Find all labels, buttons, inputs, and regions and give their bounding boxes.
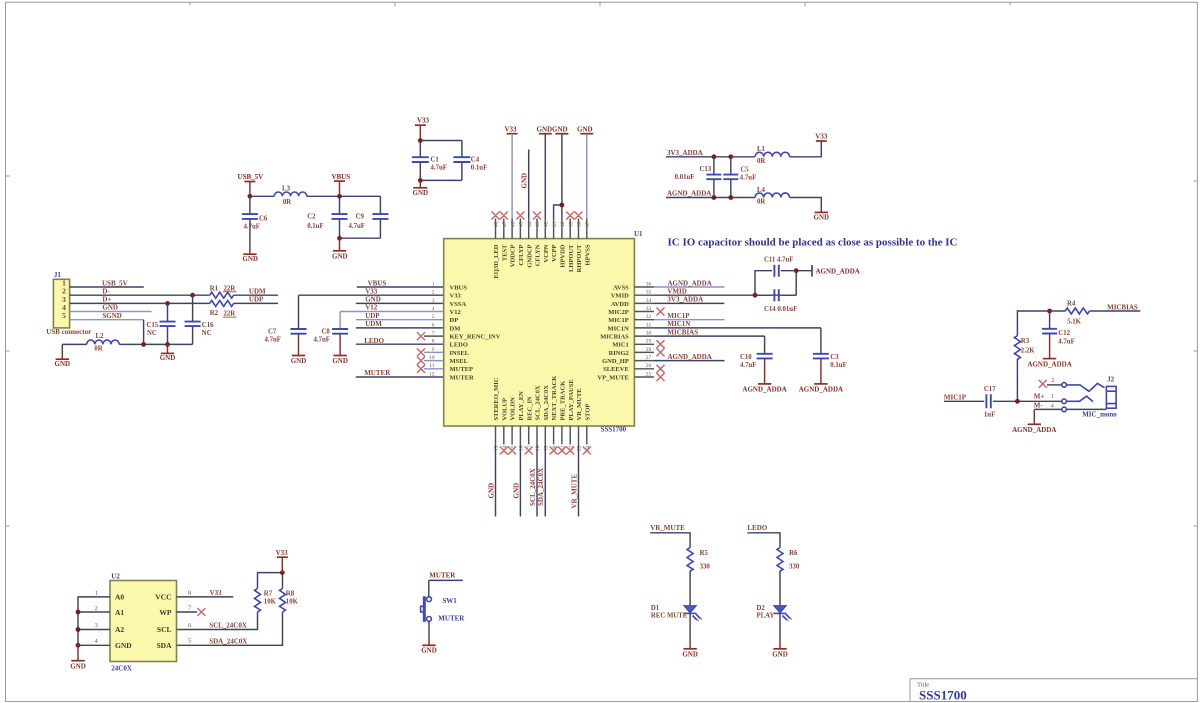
wire J1 pin5 / net SGND [70,312,144,345]
svg-text:3: 3 [95,622,98,629]
svg-text:4.7uF: 4.7uF [431,164,447,171]
svg-text:5: 5 [432,314,435,320]
svg-text:NC: NC [147,330,157,337]
svg-text:0.01uF: 0.01uF [675,174,695,181]
junction [1015,399,1020,404]
capacitor C13 [675,157,722,198]
wire net GND U1 pin16 [512,444,520,516]
svg-text:D-: D- [102,287,110,295]
junction [248,194,253,199]
svg-text:C12: C12 [1058,330,1070,337]
wire top rail C1-C4 [420,140,462,142]
svg-text:3: 3 [432,298,435,304]
svg-text:R5: R5 [700,550,709,557]
svg-text:NC: NC [202,330,212,337]
svg-text:42: 42 [544,221,550,227]
svg-text:0.1uF: 0.1uF [830,362,846,369]
svg-text:330: 330 [789,564,800,571]
svg-text:C4: C4 [471,157,480,164]
resistor R7 [255,588,277,612]
svg-text:GND: GND [55,360,71,368]
svg-text:C6: C6 [259,216,268,223]
wire R1 / net UDM [234,288,278,296]
connector J1 [53,271,69,328]
svg-text:39: 39 [568,221,574,227]
svg-text:10K: 10K [264,598,277,605]
ground (above U1 pins 41 VCPP / 40 HPVDD) [552,125,568,218]
wire net SCL_24C0X U1 pin18 [529,444,537,516]
svg-text:2.2K: 2.2K [1021,347,1035,354]
svg-text:EQ3D_LED: EQ3D_LED [493,244,500,278]
junction [165,301,170,306]
svg-text:C15: C15 [147,322,159,329]
svg-text:MIC1N: MIC1N [667,320,690,328]
capacitor C3 [813,328,847,369]
ground (above U1 pin37 HPVSS) [577,125,593,218]
svg-text:MUTER: MUTER [438,614,465,622]
svg-text:R8: R8 [286,590,295,597]
resistor R3 [1014,336,1035,360]
ground (C15/C16) [160,344,176,362]
svg-text:VBUS: VBUS [331,173,350,181]
svg-text:C14 0.01uF: C14 0.01uF [764,306,797,313]
ground (U2) [70,645,86,670]
svg-text:REC MUTE: REC MUTE [651,613,688,620]
svg-text:3V3_ADDA: 3V3_ADDA [667,296,703,304]
junction [712,195,717,200]
capacitor C10 [740,336,773,369]
svg-text:AGND_ADDA: AGND_ADDA [668,279,712,287]
junction [76,610,81,615]
svg-text:AGND_ADDA: AGND_ADDA [1027,361,1071,369]
svg-text:VBUS: VBUS [450,284,468,291]
svg-text:10: 10 [429,355,435,361]
svg-text:R4: R4 [1067,301,1076,308]
svg-text:SDA_24C0X: SDA_24C0X [209,638,247,646]
junction [141,342,146,347]
svg-text:VCPP: VCPP [551,244,558,261]
svg-text:48: 48 [494,221,500,227]
svg-text:V33: V33 [504,125,517,133]
power AGND_ADDA (C12) [1027,334,1071,369]
svg-text:GND: GND [814,214,830,222]
svg-text:UDM: UDM [249,288,266,296]
svg-text:AGND_ADDA: AGND_ADDA [1012,426,1056,434]
wire J2 pin2 [1047,377,1062,385]
svg-text:22R: 22R [224,311,236,318]
svg-text:D2: D2 [757,605,766,612]
capacitor C9 [340,196,389,238]
wire net UDP to U1 pin5 [356,312,444,320]
svg-text:GND: GND [487,483,495,499]
wire net 3V3_ADDA U1 pin34 [654,296,724,304]
ground (L4) [814,206,830,222]
svg-text:CFLYN: CFLYN [535,244,542,266]
svg-text:SDA: SDA [156,641,172,650]
svg-text:0R: 0R [283,199,291,206]
svg-text:C11 4.7uF: C11 4.7uF [764,256,793,263]
svg-text:16: 16 [519,445,525,451]
svg-text:C3: C3 [830,354,839,361]
inductor L1 [755,146,789,165]
wire J1 pin2 / net D- [70,287,210,295]
svg-text:AVDD: AVDD [611,301,629,308]
svg-text:38: 38 [577,221,583,227]
svg-text:2: 2 [95,605,98,612]
wire R6 to D2 [779,571,781,606]
svg-text:VR_MUTE: VR_MUTE [576,388,583,420]
svg-text:C8: C8 [322,329,331,336]
resistor R4 [1065,301,1089,326]
svg-text:PLAY: PLAY [757,613,775,620]
junction [337,236,342,241]
svg-text:D+: D+ [102,296,111,304]
no-connect U1 pin11 [417,365,444,373]
svg-text:L1: L1 [757,146,766,153]
svg-text:4: 4 [432,306,435,312]
svg-text:R7: R7 [264,590,273,597]
power AGND_ADDA (J2 M-) [1012,409,1056,434]
svg-text:46: 46 [510,221,516,227]
junction [418,138,423,143]
wire J1 pin4 / net GND [70,304,152,312]
wire net LEDO (LED D2) [747,524,780,547]
svg-text:47: 47 [502,221,508,227]
svg-text:V33: V33 [276,549,289,557]
power AGND_ADDA (C11/C14) [812,265,860,277]
capacitor C16 [185,295,215,344]
svg-text:6: 6 [432,322,435,328]
svg-text:4.7uF: 4.7uF [314,336,330,343]
svg-text:LEDO: LEDO [364,337,384,345]
svg-text:SGND: SGND [102,312,121,320]
wire C17 to J2 pin1 [993,400,1062,402]
capacitor C6 [242,196,268,247]
svg-text:43: 43 [535,221,541,227]
svg-text:R2: R2 [210,310,219,317]
U1 right pin numbers 36-25 and stubs [634,281,654,377]
svg-text:V33: V33 [365,287,378,295]
capacitor C11 [755,256,812,295]
svg-text:VMID: VMID [611,293,629,300]
svg-text:AGND_ADDA: AGND_ADDA [816,268,860,276]
svg-text:M-: M- [1034,401,1044,409]
svg-text:WP: WP [159,608,172,617]
svg-text:AGND_ADDA: AGND_ADDA [742,386,786,394]
no-connect U1 pin7 [417,332,444,340]
svg-text:GND: GND [160,354,176,362]
svg-text:VR_MUTE: VR_MUTE [650,524,685,532]
svg-text:MIC1N: MIC1N [607,325,629,332]
svg-text:4.7uF: 4.7uF [740,175,756,182]
svg-text:MSEL: MSEL [450,358,469,365]
wire L4 to GND [790,198,822,207]
wire net MICBIAS [1090,303,1141,311]
wire net MIC1N U1 pin31 [654,320,821,328]
svg-text:INSEL: INSEL [450,350,470,357]
no-connect J2 pin2 [1039,380,1047,388]
junction [76,643,81,648]
svg-text:1: 1 [1051,393,1054,400]
svg-text:41: 41 [552,221,558,227]
wire net SDA_24C0X U1 pin19 [537,444,545,516]
wire net V12 to U1 pin4 [340,304,444,329]
title block [910,679,1197,703]
wire net V33 U2 pin8 [177,589,234,597]
svg-text:DM: DM [450,325,461,332]
svg-text:0.1uF: 0.1uF [307,223,323,230]
wire net VR_MUTE U1 pin23 [570,444,578,516]
svg-text:MIC_mono: MIC_mono [1082,411,1117,419]
wire bottom rail SGND/L2 [62,343,192,345]
svg-text:MIC2P: MIC2P [608,309,629,316]
wire net AGND_ADDA U1 pin36 [654,279,725,287]
resistor R6 [777,548,800,572]
capacitor C14 [755,271,797,313]
svg-text:V33: V33 [417,117,430,125]
svg-text:V33: V33 [815,132,828,140]
resistor R1 [210,285,237,298]
svg-text:LEDO: LEDO [450,342,468,349]
svg-text:PLAY_EN: PLAY_EN [518,391,525,421]
svg-text:STOP: STOP [584,404,591,421]
svg-text:SSS1700: SSS1700 [601,425,627,433]
svg-text:GNDCP: GNDCP [526,244,533,267]
capacitor C12 [1042,311,1075,346]
wire R2 / net UDP [234,296,278,304]
svg-text:4.7uF: 4.7uF [244,223,260,230]
label M+ pin1 [1034,393,1054,401]
svg-text:M+: M+ [1034,393,1045,401]
svg-text:1: 1 [432,281,435,287]
connector J2 MIC_mono jack [1062,375,1118,418]
wire R3 top rail [1017,311,1065,336]
wire net SCL_24C0X U2 pin6 [177,612,258,630]
svg-text:MUTER: MUTER [364,369,391,377]
power V33 (above U1 pin46 VDDCP) [504,125,517,218]
wire/net GND (U1 pin44 GNDCP) [520,150,528,219]
wire net MIC1P U1 pin32 [654,312,725,320]
svg-text:SDA_24C0X: SDA_24C0X [537,468,545,506]
wire R7/R8 top rail [258,573,283,589]
svg-text:C9: C9 [356,213,365,220]
svg-text:VMID: VMID [667,287,686,295]
svg-text:MUTER: MUTER [429,572,456,580]
svg-text:2: 2 [1051,377,1054,384]
svg-text:A0: A0 [115,593,124,602]
svg-text:MUTER: MUTER [450,374,475,381]
svg-text:SCL_24C0X: SCL_24C0X [529,468,537,506]
junction [712,154,717,159]
svg-text:4.7uF: 4.7uF [349,223,365,230]
wire L3 to VBUS rail [307,195,381,197]
svg-text:C5: C5 [740,166,749,173]
svg-text:V33: V33 [450,293,462,300]
svg-text:C7: C7 [268,329,277,336]
svg-text:C16: C16 [202,322,214,329]
wire J1 pin1 / net USB_5V [70,279,144,287]
no-connect marks U1 top pins 48,47,45,43,39,38 [492,212,583,220]
resistor R2 [210,300,237,317]
svg-text:40: 40 [560,221,566,227]
svg-text:MIC1P: MIC1P [608,317,629,324]
svg-text:L2: L2 [96,333,105,340]
svg-text:MIC1P: MIC1P [944,393,967,401]
svg-text:18: 18 [535,445,541,451]
power V33 (top-left) [415,117,430,141]
wire net MIC1P [944,393,984,401]
svg-text:USB_5V: USB_5V [238,173,264,181]
svg-text:VR_MUTE: VR_MUTE [570,474,578,509]
wire R5 to D1 [689,571,691,606]
junction [337,194,342,199]
wire net GND U1 pin13 [487,444,495,516]
svg-text:GND: GND [552,125,568,133]
svg-text:SCL: SCL [157,625,172,634]
svg-text:GND: GND [365,296,381,304]
wire net MUTER to U1 pin12 [356,369,444,377]
svg-text:1uF: 1uF [984,411,995,418]
junction [728,195,733,200]
capacitor C8 [314,329,349,344]
svg-text:3V3_ADDA: 3V3_ADDA [667,149,703,157]
power USB_5V [238,173,264,196]
svg-text:MICBIAS: MICBIAS [1107,303,1138,311]
ground (C8) [332,334,348,365]
wire net V33 to U1 pin2 [299,287,444,329]
svg-text:STEREO_MIC: STEREO_MIC [493,377,500,420]
svg-text:TEST: TEST [501,244,508,261]
svg-text:9: 9 [432,347,435,353]
no-connect U1 pin28 [657,348,665,356]
svg-text:12: 12 [429,371,435,377]
svg-text:8: 8 [188,590,191,597]
junction [76,627,81,632]
svg-text:REC_IN: REC_IN [526,396,533,421]
svg-text:VOLDN: VOLDN [510,397,517,421]
wire R3 bottom [1016,359,1018,402]
svg-text:NEXT_TRACK: NEXT_TRACK [551,376,558,421]
wire J1 pin3 / net D+ [70,296,210,304]
svg-text:HPVSS: HPVSS [584,244,591,265]
IC U2 24C0X [95,572,193,672]
wire net MICBIAS U1 pin30 [654,328,765,336]
svg-text:C17: C17 [984,386,996,393]
power V33 (top right) [815,132,828,141]
inductor L3 [274,186,306,206]
svg-text:V12: V12 [365,304,378,312]
svg-text:U2: U2 [111,572,120,580]
svg-text:GND: GND [520,173,528,189]
LED D1 [651,605,702,622]
svg-text:MICBIAS: MICBIAS [667,328,698,336]
ground (C7) [291,334,307,365]
svg-text:GND: GND [682,651,698,659]
ground (D1) [682,613,698,658]
svg-text:CFLYP: CFLYP [518,244,525,265]
svg-text:U1: U1 [634,230,643,238]
svg-text:AVSS: AVSS [613,284,629,291]
no-connect U2 pin7 WP [177,608,206,616]
svg-text:IC IO capacitor should be plac: IC IO capacitor should be placed as clos… [668,238,958,249]
wire net VR_MUTE (LED D1) [650,524,690,547]
wire U2 left pins bus [78,597,110,645]
svg-text:VSSA: VSSA [450,301,467,308]
junction [1047,309,1052,314]
capacitor C5 [723,157,756,198]
no-connect U1 pin26 [657,365,665,373]
svg-text:C1: C1 [431,157,440,164]
capacitor C17 [984,386,996,418]
svg-text:SCL_24C0X: SCL_24C0X [209,622,247,630]
junction [753,293,758,298]
svg-text:GND: GND [332,253,348,261]
ground (D2) [772,613,788,658]
svg-text:8: 8 [432,339,435,345]
svg-text:5: 5 [188,638,191,645]
svg-text:RING2: RING2 [609,350,629,357]
svg-text:VDDCP: VDDCP [510,244,517,267]
svg-text:GND: GND [291,357,307,365]
resistor R5 [687,548,710,572]
svg-text:A2: A2 [115,625,124,634]
wire net VBUS to U1 pin1 [357,279,444,287]
junction [280,570,285,575]
power VBUS [331,173,350,197]
svg-text:C2: C2 [307,213,316,220]
svg-text:AGND_ADDA: AGND_ADDA [667,190,711,198]
svg-text:VBUS: VBUS [368,279,387,287]
svg-text:D1: D1 [651,605,660,612]
svg-text:USB_5V: USB_5V [102,279,128,287]
svg-text:13: 13 [494,445,500,451]
svg-text:GND: GND [537,125,553,133]
svg-text:0R: 0R [757,199,765,206]
svg-text:RHPOUT: RHPOUT [576,244,583,272]
junction [165,342,170,347]
svg-text:5.1K: 5.1K [1067,319,1081,326]
svg-text:GND: GND [70,662,86,670]
wire net AGND_ADDA rail [666,190,755,198]
U1 top pin stubs and numbers 48-37 [494,219,591,239]
svg-text:MIC1: MIC1 [612,342,629,349]
svg-text:37: 37 [585,221,591,227]
wire net UDM to U1 pin6 [356,320,444,328]
ground (C2/C9) [332,238,348,260]
svg-text:DP: DP [450,317,459,324]
svg-text:VCC: VCC [155,593,171,602]
no-connect U1 pin10 [417,357,444,365]
svg-text:44: 44 [527,221,533,227]
svg-text:UDP: UDP [249,296,264,304]
ground (C1/C4) [413,180,429,196]
svg-text:PRE_TRACK: PRE_TRACK [560,381,567,421]
resistor R8 [280,588,299,612]
wire J2 pin4 [1034,401,1107,409]
svg-text:MUTEP: MUTEP [450,366,474,373]
svg-text:HPVDD: HPVDD [560,244,567,267]
ground (L2 left) [55,344,71,368]
svg-text:0R: 0R [94,346,102,353]
capacitor C15 [147,303,176,344]
svg-text:AGND_ADDA: AGND_ADDA [799,386,843,394]
svg-text:MICBIAS: MICBIAS [600,334,629,341]
svg-text:22R: 22R [224,285,236,292]
svg-text:V12: V12 [450,309,461,316]
no-connect U1 pin33 [657,308,665,316]
svg-text:SLEEVE: SLEEVE [603,366,629,373]
svg-text:2: 2 [432,290,435,296]
